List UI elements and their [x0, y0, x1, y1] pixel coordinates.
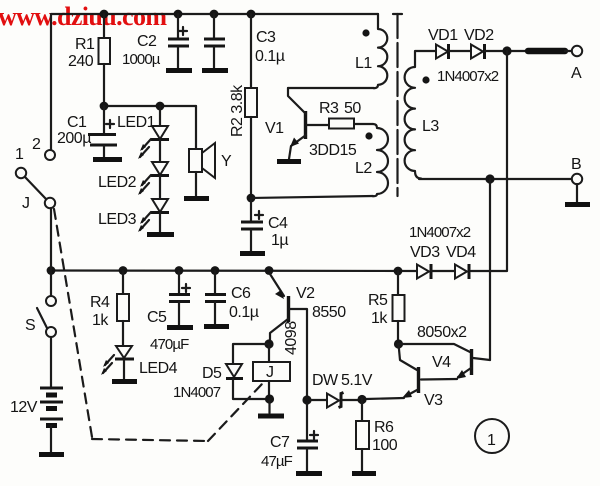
- wire L3 bottom to B: [419, 178, 572, 180]
- wire relay to ground: [268, 399, 270, 413]
- node bus-V2: [265, 266, 274, 275]
- resistor R3 (50): [319, 100, 373, 129]
- node bus-R5: [394, 267, 403, 276]
- node L3 phase dot: [422, 76, 429, 83]
- svg-text:1k: 1k: [371, 310, 388, 327]
- capacitor C3: [202, 14, 285, 71]
- wire B junction down to V4 collector: [489, 179, 491, 360]
- svg-text:0.1µ: 0.1µ: [229, 304, 259, 321]
- svg-text:VD3: VD3: [410, 244, 440, 261]
- capacitor C5: [147, 271, 193, 353]
- node DW-R6: [357, 395, 366, 404]
- node DW left / V2 base: [302, 395, 311, 404]
- resistor R5: [368, 271, 405, 344]
- battery 12V: [10, 337, 64, 455]
- fuse bar to terminal A: [528, 48, 565, 55]
- terminal B: [565, 156, 590, 205]
- svg-text:100: 100: [372, 437, 398, 454]
- svg-text:J: J: [266, 364, 274, 381]
- node top-R2: [247, 10, 256, 19]
- svg-text:LED2: LED2: [98, 174, 137, 191]
- node B junction: [485, 174, 494, 183]
- terminal 2: [45, 150, 55, 160]
- svg-text:2: 2: [32, 136, 41, 153]
- svg-text:50: 50: [344, 100, 361, 117]
- svg-text:V4: V4: [432, 354, 451, 371]
- transistor V4: [398, 344, 490, 379]
- svg-text:www.dziuu.com: www.dziuu.com: [0, 2, 167, 31]
- svg-text:L2: L2: [355, 160, 372, 177]
- svg-text:VD1: VD1: [428, 27, 458, 44]
- node bus-C6: [211, 266, 220, 275]
- svg-text:LED3: LED3: [98, 211, 137, 228]
- node VD2 output: [502, 46, 511, 55]
- svg-text:R4: R4: [90, 294, 110, 311]
- diode D5 1N4007: [173, 364, 265, 401]
- svg-text:1N4007x2: 1N4007x2: [437, 68, 499, 85]
- capacitor C2: [122, 14, 192, 71]
- svg-text:L3: L3: [422, 118, 439, 135]
- LED1: [117, 106, 169, 159]
- svg-text:C1: C1: [67, 114, 87, 131]
- svg-text:8550: 8550: [312, 304, 346, 321]
- node R1-C1: [100, 102, 109, 111]
- transformer winding L1: [355, 14, 387, 88]
- svg-text:L1: L1: [355, 55, 372, 72]
- wire V1 collector to L1 bottom: [288, 87, 374, 89]
- svg-text:8050x2: 8050x2: [417, 324, 467, 341]
- svg-text:J: J: [22, 195, 30, 212]
- svg-text:R6: R6: [374, 419, 394, 436]
- svg-text:12V: 12V: [10, 399, 38, 416]
- svg-text:1: 1: [487, 432, 496, 449]
- svg-text:200µ: 200µ: [57, 130, 91, 147]
- switch S: [25, 270, 56, 337]
- capacitor C1: [57, 106, 122, 160]
- wire middle bus: [51, 269, 417, 272]
- node LED chain top: [156, 102, 165, 111]
- svg-text:1µ: 1µ: [271, 232, 288, 249]
- resistor R2 (3.8k): [229, 14, 257, 198]
- svg-text:B: B: [571, 156, 581, 173]
- terminal A: [565, 46, 582, 82]
- wire node row y106: [104, 105, 196, 107]
- node L2 phase dot: [365, 132, 372, 139]
- svg-text:LED4: LED4: [139, 360, 178, 377]
- svg-text:1: 1: [15, 146, 24, 163]
- svg-text:R1: R1: [75, 36, 95, 53]
- zener DW 5.1V: [311, 372, 373, 408]
- node bus-C5: [175, 266, 184, 275]
- relay coil J: [253, 344, 290, 399]
- node bus-switch: [47, 266, 56, 275]
- capacitor C7: [261, 404, 322, 474]
- svg-text:Y: Y: [221, 153, 232, 170]
- transistor V3: [366, 344, 457, 409]
- dashed linkage J to relay: [54, 209, 262, 441]
- resistor R4: [90, 271, 129, 346]
- svg-text:1k: 1k: [92, 312, 109, 329]
- svg-text:47µF: 47µF: [261, 453, 293, 470]
- figure marker 1: [475, 419, 509, 453]
- svg-text:0.1µ: 0.1µ: [255, 48, 285, 65]
- svg-text:A: A: [571, 65, 582, 82]
- svg-text:C4: C4: [268, 215, 288, 232]
- diode VD1: [428, 27, 471, 59]
- capacitor C4: [240, 198, 288, 254]
- svg-text:VD2: VD2: [464, 27, 494, 44]
- transformer winding L2: [355, 124, 388, 196]
- wire C4 node to L2 bottom: [251, 196, 373, 198]
- svg-text:V1: V1: [265, 120, 284, 137]
- svg-text:3DD15: 3DD15: [309, 142, 357, 159]
- diode VD4: [446, 244, 476, 279]
- transformer core: [393, 14, 402, 196]
- diode VD2: [464, 27, 528, 59]
- svg-text:240: 240: [68, 53, 94, 70]
- node R2-C4: [247, 194, 256, 203]
- node R5-V3-V4: [394, 339, 403, 348]
- node L1 phase dot: [362, 29, 369, 36]
- LED2: [98, 140, 169, 195]
- svg-text:LED1: LED1: [117, 114, 156, 131]
- transistor V1 3DD15: [265, 88, 357, 162]
- svg-text:470µF: 470µF: [150, 336, 189, 353]
- terminal 1: [16, 168, 26, 178]
- resistor R6 (100): [352, 399, 398, 474]
- svg-text:1N4007: 1N4007: [173, 384, 221, 401]
- speaker Y: [184, 106, 232, 199]
- svg-text:C2: C2: [137, 33, 157, 50]
- capacitor C6: [204, 271, 259, 327]
- svg-text:1N4007x2: 1N4007x2: [409, 224, 471, 241]
- transformer winding L3: [405, 51, 440, 179]
- transistor V2 8550: [270, 274, 346, 396]
- resistor R1: [68, 14, 110, 106]
- switch J blade: [25, 177, 46, 199]
- svg-text:R2 3.8k: R2 3.8k: [229, 84, 246, 137]
- svg-text:DW: DW: [312, 372, 339, 389]
- svg-text:D5: D5: [202, 365, 222, 382]
- svg-text:V3: V3: [424, 392, 443, 409]
- node top-R1: [100, 10, 109, 19]
- svg-text:R3: R3: [319, 100, 339, 117]
- svg-text:V2: V2: [296, 285, 315, 302]
- switch J contact: [45, 198, 55, 208]
- svg-text:4098: 4098: [283, 321, 300, 355]
- svg-text:5.1V: 5.1V: [341, 372, 373, 389]
- svg-text:C7: C7: [270, 434, 290, 451]
- svg-text:C5: C5: [147, 309, 167, 326]
- svg-text:VD4: VD4: [446, 244, 476, 261]
- svg-text:C6: C6: [231, 285, 251, 302]
- node V2 collector / relay top: [264, 339, 273, 348]
- node top-C2: [174, 10, 183, 19]
- svg-text:C3: C3: [256, 29, 276, 46]
- svg-text:S: S: [25, 317, 35, 334]
- node relay bottom: [265, 394, 274, 403]
- LED4: [101, 346, 178, 382]
- diode VD3: [410, 244, 455, 279]
- wire relay-D5 top link: [233, 344, 269, 363]
- LED3: [98, 176, 174, 235]
- wire J contact to bus: [50, 208, 52, 270]
- wire A-node vertical: [471, 51, 507, 271]
- node top-C3: [210, 10, 219, 19]
- node bus-R4: [119, 266, 128, 275]
- svg-text:1000µ: 1000µ: [122, 51, 161, 68]
- wire top rail: [51, 14, 378, 150]
- svg-text:R5: R5: [368, 292, 388, 309]
- ground relay: [258, 414, 284, 419]
